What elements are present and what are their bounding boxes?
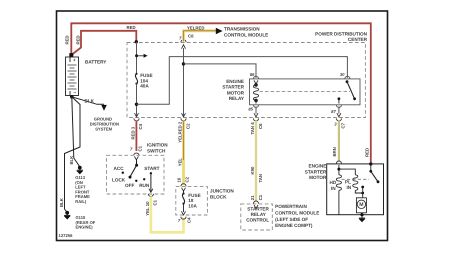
- svg-text:CONTROL MODULE: CONTROL MODULE: [275, 210, 319, 215]
- wire RED battery to starter (top run): [71, 23, 371, 162]
- svg-text:OFF: OFF: [125, 183, 134, 188]
- svg-text:40A: 40A: [140, 84, 149, 89]
- svg-text:BLOCK: BLOCK: [210, 194, 227, 199]
- relay contact fixed terminal: [338, 97, 341, 100]
- junction block bottom connector: [182, 211, 186, 215]
- svg-text:30: 30: [340, 72, 345, 77]
- svg-text:STARTER: STARTER: [305, 169, 327, 174]
- motor: [356, 198, 366, 213]
- solenoid mechanical link: [342, 178, 370, 180]
- wire YELRED PDC to junction block: [182, 121, 185, 186]
- svg-text:IN: IN: [347, 185, 352, 190]
- ignition switch connector C1: [134, 153, 139, 155]
- svg-text:ENGINE: ENGINE: [226, 79, 244, 84]
- wire BLK to G115: [65, 97, 81, 212]
- node solenoid feed: [338, 165, 340, 175]
- ground G113: [77, 166, 83, 173]
- svg-text:C1: C1: [153, 199, 158, 205]
- svg-text:CONTROL: CONTROL: [246, 217, 269, 222]
- svg-text:YELRED: YELRED: [187, 26, 204, 31]
- svg-text:RELAY: RELAY: [251, 212, 267, 217]
- power distribution center dashed box: [127, 43, 365, 118]
- wire RED battery to PDC: [71, 31, 136, 55]
- svg-text:YELRED 2: YELRED 2: [177, 121, 182, 143]
- svg-text:MOTOR: MOTOR: [309, 175, 327, 180]
- svg-text:IGNITION: IGNITION: [147, 142, 168, 147]
- svg-text:RED: RED: [365, 148, 370, 157]
- svg-text:STARTER: STARTER: [247, 206, 269, 211]
- svg-text:C6: C6: [258, 123, 263, 129]
- svg-text:RUN: RUN: [139, 183, 150, 188]
- wire: branch to relay contact 30: [137, 57, 348, 105]
- wire START to bottom connector: [150, 173, 152, 192]
- PCM top connector: [253, 201, 258, 204]
- svg-text:TAN 4: TAN 4: [250, 122, 255, 135]
- arrow to transmission control module: [216, 28, 223, 35]
- svg-text:YEL: YEL: [177, 158, 182, 167]
- svg-text:ACC: ACC: [114, 166, 125, 171]
- svg-text:MOTOR: MOTOR: [227, 90, 245, 95]
- svg-text:87: 87: [331, 109, 336, 114]
- PL IN coil: [353, 175, 358, 191]
- fuse 104 40A: [135, 73, 152, 89]
- battery: [66, 57, 108, 96]
- svg-text:10: 10: [176, 177, 181, 182]
- svg-text:STARTER: STARTER: [222, 85, 244, 90]
- svg-text:POWER DISTRIBUTION: POWER DISTRIBUTION: [315, 31, 367, 36]
- svg-text:FUSE: FUSE: [140, 73, 152, 78]
- junction block top connector: [181, 184, 186, 187]
- svg-text:RED: RED: [65, 35, 70, 44]
- svg-text:IN: IN: [331, 186, 336, 191]
- svg-text:BRN: BRN: [332, 147, 337, 156]
- svg-text:104: 104: [140, 78, 148, 83]
- svg-text:LOCK: LOCK: [112, 178, 126, 183]
- svg-text:C2: C2: [185, 123, 190, 129]
- wire: YELRED vertical inside PDC: [183, 48, 185, 116]
- svg-text:ENGINE): ENGINE): [76, 225, 94, 230]
- PDC bottom connector C7 (brn out): [337, 113, 341, 117]
- relay pin 85: [253, 105, 258, 108]
- svg-text:START: START: [144, 166, 159, 171]
- wire: fuse to bottom connector: [136, 84, 138, 117]
- junction block fuse 18 10A: [183, 190, 185, 193]
- PDC bottom connector C4 (red out): [135, 113, 139, 117]
- ground G115: [64, 211, 70, 218]
- svg-text:FUSE: FUSE: [188, 193, 200, 198]
- svg-text:YEL 10: YEL 10: [145, 201, 150, 216]
- svg-text:TAN: TAN: [258, 174, 263, 183]
- wire BRN PDC to starter motor: [338, 121, 340, 162]
- node: coil feed junction: [182, 62, 185, 65]
- svg-text:C1: C1: [258, 194, 263, 200]
- wire BLK to ground distribution: [72, 97, 104, 105]
- junction block box: [176, 187, 208, 215]
- svg-text:SWITCH: SWITCH: [147, 149, 166, 154]
- svg-text:85: 85: [248, 106, 253, 111]
- svg-text:18: 18: [188, 198, 194, 203]
- svg-text:HD: HD: [330, 180, 337, 185]
- svg-text:K90: K90: [250, 166, 255, 174]
- starter ground: [359, 215, 365, 222]
- ignition switch pivot: [136, 159, 138, 165]
- svg-text:C4: C4: [187, 217, 192, 223]
- relay mechanical link: [260, 90, 351, 92]
- svg-text:BLK: BLK: [69, 155, 74, 165]
- svg-text:C2: C2: [185, 176, 190, 182]
- relay pin 86: [253, 76, 258, 79]
- node: fuse output junction: [135, 103, 138, 106]
- wire TAN PDC to PCM: [255, 121, 257, 202]
- node: stub arrow feed: [135, 54, 138, 57]
- wire BLK to G113: [72, 97, 80, 167]
- svg-text:RED: RED: [127, 25, 136, 30]
- motor to ground rail: [360, 213, 362, 215]
- svg-text:TRANSMISSION: TRANSMISSION: [224, 27, 260, 32]
- relay coil: [253, 84, 258, 102]
- ignition switch blade to LOCK: [130, 165, 137, 177]
- HD coil to ground rail: [338, 190, 340, 214]
- svg-text:86: 86: [250, 72, 255, 77]
- position dots: [122, 172, 124, 174]
- svg-text:C7: C7: [341, 122, 346, 128]
- engine starter motor relay box: [250, 79, 361, 105]
- svg-text:RED: RED: [75, 35, 80, 44]
- svg-text:POWERTRAIN: POWERTRAIN: [275, 204, 307, 209]
- svg-text:SYSTEM: SYSTEM: [95, 127, 112, 132]
- svg-text:127256: 127256: [59, 233, 74, 238]
- relay contact blade: [346, 80, 349, 83]
- battery positive junction dot: [69, 53, 73, 57]
- svg-text:CONTROL MODULE: CONTROL MODULE: [224, 32, 268, 37]
- starter contact: [369, 162, 372, 165]
- svg-text:+: +: [73, 58, 76, 63]
- svg-text:BLK: BLK: [59, 197, 64, 207]
- battery negative junction dot: [70, 95, 74, 99]
- svg-text:RAIL): RAIL): [75, 199, 87, 204]
- engine starter motor box: [327, 164, 384, 215]
- wire RED PDC to ignition switch: [135, 121, 137, 151]
- starter relay control box: [241, 204, 272, 230]
- svg-text:C1: C1: [138, 145, 143, 151]
- svg-text:ENGINE: ENGINE: [309, 164, 327, 169]
- svg-text:10A: 10A: [188, 203, 197, 208]
- PDC bottom connector C6 (tan out): [254, 113, 258, 117]
- svg-text:JUNCTION: JUNCTION: [210, 189, 234, 194]
- ignition switch box: [107, 155, 165, 194]
- svg-text:PL: PL: [345, 180, 351, 185]
- wire YELRED to TCM: [184, 31, 217, 42]
- PDC bottom connector C2 (yelred out): [182, 113, 186, 117]
- wire YEL ignition to junction block: [151, 196, 184, 232]
- svg-text:C8: C8: [188, 34, 194, 39]
- PL coil to motor node: [355, 190, 362, 193]
- svg-text:BATTERY: BATTERY: [85, 60, 107, 65]
- node: battery feed entry dot into PDC: [135, 40, 138, 43]
- svg-text:C4: C4: [138, 123, 143, 129]
- svg-text:−: −: [74, 90, 77, 95]
- connector C8 to TCM: [181, 40, 186, 43]
- wire: to relay coil 86: [184, 64, 257, 78]
- svg-text:RELAY: RELAY: [229, 96, 245, 101]
- svg-text:(LEFT SIDE OF: (LEFT SIDE OF: [275, 217, 308, 222]
- wire: PDC feed down to fuse: [136, 42, 138, 74]
- svg-text:BLK: BLK: [85, 99, 95, 104]
- border frame: [57, 11, 388, 241]
- svg-text:M: M: [359, 202, 363, 208]
- svg-text:CENTER: CENTER: [348, 37, 368, 42]
- svg-text:ENGINE COMPT): ENGINE COMPT): [275, 223, 313, 228]
- svg-text:21: 21: [250, 195, 255, 200]
- starter motor BRN connector: [336, 161, 341, 164]
- HD IN coil: [336, 175, 341, 191]
- svg-text:RED 3: RED 3: [130, 126, 135, 139]
- relay pin 30: [345, 76, 350, 79]
